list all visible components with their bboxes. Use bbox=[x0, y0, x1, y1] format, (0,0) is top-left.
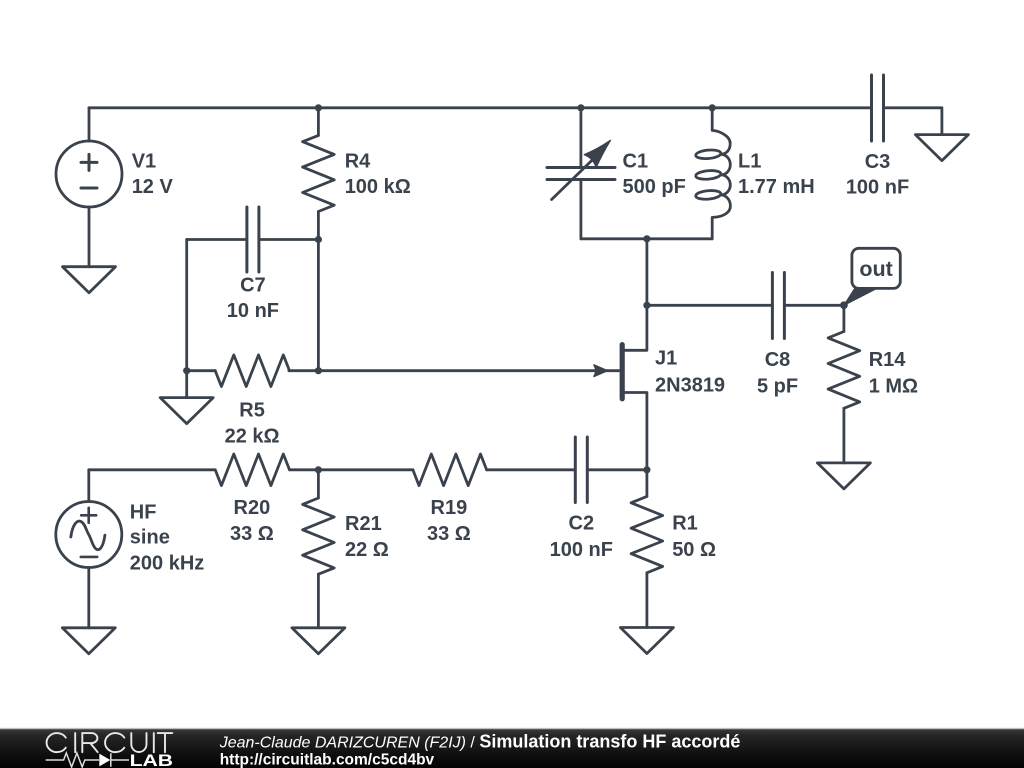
svg-text:5 pF: 5 pF bbox=[757, 376, 798, 398]
wire R5 ground stem bbox=[185, 371, 188, 398]
wire R14 leads bbox=[843, 305, 846, 463]
wire tank bottom bbox=[581, 237, 712, 240]
resistor R1 bbox=[631, 496, 663, 572]
svg-text:2N3819: 2N3819 bbox=[655, 375, 725, 397]
svg-text:C1: C1 bbox=[623, 151, 649, 173]
wire node column bbox=[317, 240, 320, 371]
capacitor C7 bbox=[247, 207, 259, 272]
wire C7 row bbox=[187, 238, 319, 241]
svg-text:33 Ω: 33 Ω bbox=[427, 523, 471, 545]
junction R5 left bbox=[183, 367, 190, 374]
wire R4 leads bbox=[317, 108, 320, 240]
capacitor C3 bbox=[872, 75, 884, 141]
svg-text:200 kHz: 200 kHz bbox=[130, 553, 205, 575]
svg-text:L1: L1 bbox=[738, 151, 761, 173]
svg-text:J1: J1 bbox=[655, 347, 677, 369]
svg-text:LAB: LAB bbox=[130, 752, 174, 768]
junction gate node bbox=[315, 367, 322, 374]
ground (R21) bbox=[292, 628, 345, 654]
junction source node bbox=[643, 466, 650, 473]
svg-text:C2: C2 bbox=[569, 513, 595, 535]
svg-text:33 Ω: 33 Ω bbox=[230, 523, 274, 545]
resistor R5 bbox=[215, 355, 289, 387]
svg-text:R14: R14 bbox=[869, 349, 907, 371]
svg-text:100 nF: 100 nF bbox=[550, 539, 613, 561]
wire C1 leads bbox=[580, 108, 583, 239]
svg-text:out: out bbox=[859, 257, 892, 281]
svg-text:500 pF: 500 pF bbox=[623, 176, 686, 198]
junction R20/R21 node bbox=[315, 466, 322, 473]
capacitor C2 bbox=[575, 437, 587, 503]
wire C7 left drop bbox=[185, 240, 188, 371]
svg-text:100 kΩ: 100 kΩ bbox=[345, 176, 411, 198]
svg-text:V1: V1 bbox=[132, 151, 156, 173]
wire drain vertical bbox=[646, 239, 649, 305]
svg-text:sine: sine bbox=[130, 527, 170, 549]
ground (HF) bbox=[62, 628, 115, 654]
svg-text:C8: C8 bbox=[765, 349, 791, 371]
svg-text:1.77 mH: 1.77 mH bbox=[738, 176, 815, 198]
wire V1 top lead bbox=[88, 108, 91, 141]
junction tank bottom bbox=[643, 235, 650, 242]
junction R4 top bbox=[315, 104, 322, 111]
svg-text:R20: R20 bbox=[234, 497, 271, 519]
svg-text:C3: C3 bbox=[865, 151, 891, 173]
source HF sine bbox=[56, 502, 122, 568]
capacitor C8 bbox=[772, 273, 784, 339]
svg-text:http://circuitlab.com/c5cd4bv: http://circuitlab.com/c5cd4bv bbox=[220, 751, 435, 768]
junction C1 top bbox=[577, 104, 584, 111]
junction out node bbox=[840, 301, 848, 309]
svg-text:22 Ω: 22 Ω bbox=[345, 539, 389, 561]
svg-text:22 kΩ: 22 kΩ bbox=[225, 426, 280, 448]
svg-text:R19: R19 bbox=[431, 497, 468, 519]
logo CIRCUIT bbox=[47, 733, 173, 752]
svg-text:C7: C7 bbox=[240, 275, 266, 297]
wire gate row bbox=[187, 369, 620, 372]
junction R4/C7 node bbox=[315, 236, 322, 243]
svg-text:1 MΩ: 1 MΩ bbox=[869, 376, 918, 398]
junction drain node bbox=[643, 302, 650, 309]
svg-text:50 Ω: 50 Ω bbox=[672, 539, 716, 561]
wire C3 to right ground bbox=[884, 108, 942, 135]
footer bar bbox=[0, 728, 1024, 768]
svg-text:R5: R5 bbox=[239, 400, 265, 422]
wire R21 leads bbox=[317, 470, 320, 628]
ground (R14) bbox=[817, 463, 870, 489]
svg-text:R4: R4 bbox=[345, 151, 371, 173]
resistor R14 bbox=[828, 332, 860, 409]
node out flag bbox=[844, 248, 900, 305]
resistor R21 bbox=[303, 498, 335, 574]
resistor R19 bbox=[413, 454, 487, 486]
wire signal row bbox=[89, 468, 647, 471]
transistor J1 (N-JFET) bbox=[594, 305, 647, 470]
logo resistor-diode icon bbox=[46, 753, 129, 767]
svg-text:HF: HF bbox=[130, 502, 157, 524]
capacitor C1 (variable) bbox=[547, 140, 615, 199]
svg-text:Jean-Claude DARIZCUREN (F2IJ): Jean-Claude DARIZCUREN (F2IJ) / Simulati… bbox=[219, 732, 741, 752]
wire HF leads bbox=[87, 470, 90, 628]
ground (V1) bbox=[63, 267, 116, 293]
ground (R5/C7) bbox=[160, 398, 213, 424]
voltage source V1 bbox=[56, 141, 122, 207]
wire V1 bottom lead bbox=[88, 207, 91, 267]
resistor R4 bbox=[303, 135, 335, 211]
inductor L1 bbox=[695, 108, 730, 239]
svg-text:R1: R1 bbox=[672, 513, 698, 535]
svg-text:12 V: 12 V bbox=[132, 176, 174, 198]
resistor R20 bbox=[215, 454, 289, 486]
wire top rail bbox=[89, 106, 872, 109]
ground (R1) bbox=[620, 628, 673, 654]
svg-text:R21: R21 bbox=[345, 513, 382, 535]
junction L1 top bbox=[709, 104, 716, 111]
svg-text:100 nF: 100 nF bbox=[846, 176, 909, 198]
wire out row bbox=[647, 304, 844, 307]
wire R1 leads bbox=[646, 470, 649, 628]
svg-text:10 nF: 10 nF bbox=[227, 300, 279, 322]
ground (top right) bbox=[915, 135, 968, 161]
